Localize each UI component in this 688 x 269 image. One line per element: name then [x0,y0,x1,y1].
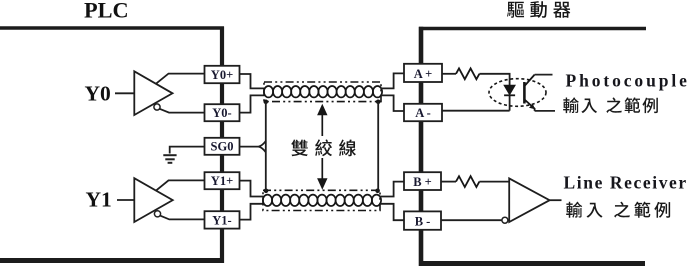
svg-text:Y0+: Y0+ [211,68,233,82]
junction dot upper-left of cable1 [264,100,269,105]
wire B- to line receiver bubble [441,219,502,221]
wire cable1 to A- [381,95,404,111]
resistor R2 [456,176,479,187]
junction dot right of cable2 [375,189,380,194]
wire Y0+ to twisted pair [240,74,265,88]
wire collector rail [535,74,553,76]
label 輸入之範例 row2 [566,202,670,218]
junction dot upper-right of cable1 [376,100,381,105]
terminal B+ [404,172,441,190]
wire Y0- to twisted pair [240,95,265,112]
svg-text:Y1+: Y1+ [211,174,233,188]
terminal SG0 [205,138,240,155]
wire resistor to line receiver [479,181,509,183]
terminal Y1+ [205,172,240,189]
arrow up to cable1 [321,114,323,136]
driver box bottom wall [419,261,645,266]
svg-text:B -: B - [415,215,431,229]
wire LED cathode down [509,95,511,110]
terminal B- [404,211,441,229]
driver box left wall [419,27,424,266]
label 輸入之範例 row1 [563,97,658,113]
svg-text:Photocouple: Photocouple [566,71,688,91]
phototransistor Q1 [523,82,526,104]
shield wire right [377,102,379,191]
PLC box bottom wall [0,258,224,263]
wire emitter rail [535,110,555,112]
wire SG0 to shield (Y split) [240,141,266,152]
terminal Y0- [205,104,240,121]
wire Y0 input [115,92,134,94]
resistor R1 [456,68,479,79]
wire A+ to resistor [442,73,456,75]
terminal Y0+ [205,66,240,83]
line receiver U3 [509,178,549,222]
wire cable2 to B- [380,204,404,220]
wire Y1 non-inverting output to Y1+ [156,180,204,190]
wire Y1 input [117,199,134,201]
svg-text:Y0-: Y0- [212,106,231,120]
ground symbol [163,155,176,163]
terminal A+ [404,64,442,82]
wire Y1- to twisted pair [240,204,264,220]
wire Y0 non-inverting output to Y0+ [156,74,204,84]
wire resistor to LED anode [479,74,509,86]
inversion bubble on Y1 driver [154,211,160,217]
Q1 emitter with arrow [525,100,535,111]
svg-text:SG0: SG0 [211,140,234,154]
shield wire left (SG0 drain) [265,102,267,191]
driver label 驅動器 [507,1,570,18]
svg-text:A +: A + [414,67,433,81]
buffer U2 (Y1 line driver) [134,178,172,222]
photocoupler LED D1 [504,85,515,94]
twisted pair cable 1 (Y0 pair) [264,82,381,102]
twisted pair cable 2 (Y1 pair) [263,190,380,210]
wire A- to LED [442,110,510,112]
svg-text:PLC: PLC [84,0,129,23]
svg-text:Y1-: Y1- [212,213,231,227]
wire Y1+ to twisted pair [240,181,264,197]
wire cable1 to A+ [381,73,404,88]
junction dot left of cable2 [264,189,269,194]
PLC box top wall [0,26,224,29]
wire cable2 to B+ [380,182,404,197]
terminal Y1- [205,211,240,228]
inversion bubble on U3 input [502,217,508,223]
svg-text:Line Receiver: Line Receiver [564,172,688,192]
svg-text:Y1: Y1 [86,187,112,211]
Q1 collector [525,75,535,86]
PLC box right wall [220,27,224,264]
photocoupler package ellipse [489,79,546,107]
buffer U1 (Y0 line driver) [134,71,172,115]
inversion bubble on Y0 driver [154,104,160,110]
terminal A- [404,104,442,121]
wire Y1 inverting output to Y1- [160,216,204,220]
driver box top wall [419,27,646,31]
svg-text:A -: A - [415,106,431,120]
wire SG0 to ground [170,147,204,154]
svg-text:Y0: Y0 [85,81,111,105]
label 雙絞線 (twisted pair) [291,139,356,156]
wire Y0 inverting output to Y0- [160,109,204,113]
svg-text:B +: B + [413,175,432,189]
arrow down to cable2 [321,158,323,180]
wire U3 output [550,199,562,201]
wire B+ to resistor [441,181,456,183]
